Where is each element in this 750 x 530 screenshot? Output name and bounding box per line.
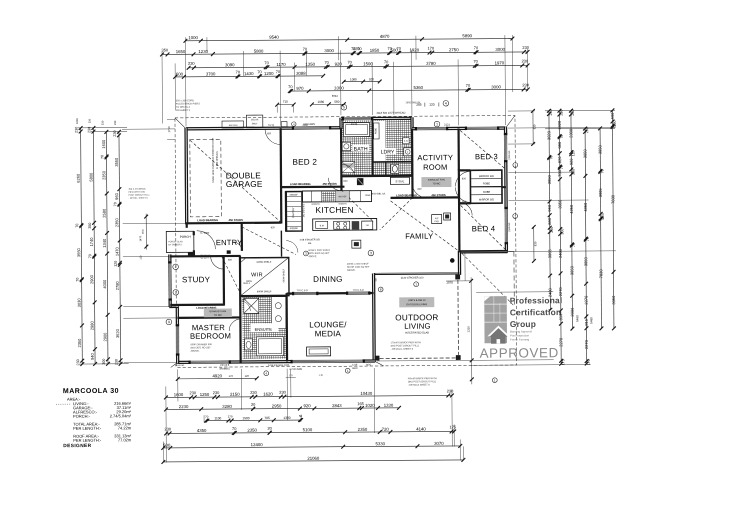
svg-text:ACTIVITY: ACTIVITY <box>417 153 453 162</box>
svg-text:INTEGRATED SLAB: INTEGRATED SLAB <box>405 330 429 334</box>
svg-text:1920: 1920 <box>410 47 420 52</box>
svg-text:500: 500 <box>163 443 171 448</box>
svg-text:2270: 2270 <box>558 337 563 347</box>
svg-text:2980: 2980 <box>89 321 94 331</box>
svg-text:LIVING: LIVING <box>404 322 430 331</box>
svg-text:4870: 4870 <box>380 34 390 39</box>
svg-text:8944: 8944 <box>332 94 338 98</box>
svg-text:1080: 1080 <box>350 77 357 81</box>
svg-text:ABOVE.: ABOVE. <box>191 350 200 353</box>
svg-text:70: 70 <box>549 156 553 160</box>
svg-text:Frame Farming: Frame Farming <box>510 337 530 341</box>
svg-text:2300: 2300 <box>568 128 573 138</box>
svg-text:170: 170 <box>229 374 234 378</box>
svg-text:3050: 3050 <box>583 256 588 266</box>
svg-text:2400: 2400 <box>558 248 563 258</box>
svg-text:(ROBMG): (ROBMG) <box>220 368 230 370</box>
svg-text:350: 350 <box>88 223 92 229</box>
svg-text:B.M: B.M <box>320 225 324 227</box>
svg-text:UNITS & RW 10: UNITS & RW 10 <box>408 299 426 302</box>
svg-text:2350: 2350 <box>77 338 82 348</box>
svg-text:230: 230 <box>213 390 220 395</box>
svg-text:AWN: AWN <box>352 367 358 370</box>
svg-text:1620: 1620 <box>263 392 273 397</box>
svg-text:120: 120 <box>114 261 118 267</box>
svg-text:2130 STACKER 100: 2130 STACKER 100 <box>401 276 424 279</box>
svg-text:4000: 4000 <box>102 279 107 289</box>
svg-text:PER LENGTH:-: PER LENGTH:- <box>73 426 102 431</box>
svg-text:ABOVE.: ABOVE. <box>308 255 317 258</box>
svg-text:230: 230 <box>549 109 553 115</box>
svg-text:600W SHELF: 600W SHELF <box>283 268 285 282</box>
svg-text:230: 230 <box>279 390 286 395</box>
svg-text:- DETAILS, SHEET 6: - DETAILS, SHEET 6 <box>391 348 414 351</box>
svg-text:230: 230 <box>75 127 79 133</box>
svg-text:1218: 1218 <box>352 364 358 366</box>
svg-text:1970: 1970 <box>495 60 505 65</box>
svg-text:820: 820 <box>343 180 348 183</box>
svg-text:BY OWNERS: BY OWNERS <box>168 244 182 246</box>
svg-text:Certification: Certification <box>510 307 562 317</box>
svg-text:230: 230 <box>522 58 529 63</box>
svg-text:3000: 3000 <box>324 48 334 53</box>
svg-text:820: 820 <box>267 132 272 135</box>
svg-text:5800: 5800 <box>254 49 264 54</box>
svg-text:1605: 1605 <box>75 118 79 124</box>
svg-text:3005: 3005 <box>598 188 603 198</box>
svg-text:600 REF: 600 REF <box>339 196 348 198</box>
svg-text:5330: 5330 <box>375 441 385 446</box>
svg-text:1500: 1500 <box>242 416 249 420</box>
svg-text:DINING: DINING <box>313 275 343 284</box>
svg-text:4350: 4350 <box>583 202 588 212</box>
svg-text:3780: 3780 <box>426 61 436 66</box>
svg-text:230: 230 <box>189 390 196 395</box>
svg-text:LOAD BEARING: LOAD BEARING <box>396 193 417 197</box>
svg-text:K / 1260: K / 1260 <box>200 232 210 235</box>
svg-text:5800: 5800 <box>88 172 93 182</box>
svg-text:230: 230 <box>522 82 529 87</box>
svg-text:1600: 1600 <box>174 392 184 397</box>
svg-text:SHELF: SHELF <box>243 283 251 285</box>
svg-text:2900: 2900 <box>89 274 94 284</box>
svg-text:870: 870 <box>141 229 145 234</box>
svg-text:3280: 3280 <box>222 404 232 409</box>
svg-text:6260: 6260 <box>76 173 81 183</box>
svg-text:2150: 2150 <box>230 392 240 397</box>
svg-text:EXHAUST FAN: EXHAUST FAN <box>428 179 445 182</box>
svg-text:MSGD 160W OVERHEAD STEERING DO: MSGD 160W OVERHEAD STEERING DOOR <box>212 137 215 182</box>
svg-text:230: 230 <box>113 120 117 125</box>
svg-text:2/C S/D LIN 3: 2/C S/D LIN 3 <box>303 203 305 217</box>
svg-text:3/18 STACKER S/D: 3/18 STACKER S/D <box>300 238 321 241</box>
svg-text:880: 880 <box>547 217 552 224</box>
svg-text:4: 4 <box>445 101 447 105</box>
svg-text:2118: 2118 <box>302 124 308 127</box>
svg-text:770 C.S.D: 770 C.S.D <box>353 289 364 292</box>
svg-text:70/50: 70/50 <box>365 195 371 197</box>
svg-text:2270: 2270 <box>584 295 589 305</box>
svg-text:600W SHELF: 600W SHELF <box>257 261 272 264</box>
svg-text:1320: 1320 <box>557 120 562 130</box>
svg-text:1170: 1170 <box>276 62 286 67</box>
svg-text:9: 9 <box>168 320 170 324</box>
svg-text:MARCOOLA 30: MARCOOLA 30 <box>63 388 119 395</box>
svg-text:LOAD BEARING: LOAD BEARING <box>290 182 311 186</box>
svg-text:2: 2 <box>175 290 177 294</box>
svg-text:1340: 1340 <box>102 238 107 248</box>
svg-text:3020: 3020 <box>546 130 551 140</box>
svg-text:1470: 1470 <box>114 246 119 256</box>
svg-text:70: 70 <box>100 155 104 159</box>
svg-text:5360: 5360 <box>413 85 423 90</box>
svg-text:1330: 1330 <box>384 403 394 408</box>
svg-text:230: 230 <box>250 390 257 395</box>
svg-text:3700: 3700 <box>206 71 216 76</box>
svg-text:ENTRY: ENTRY <box>216 238 243 247</box>
svg-text:1218 P.B GRS 1906: 1218 P.B GRS 1906 <box>268 364 290 367</box>
svg-text:700: 700 <box>557 169 562 176</box>
svg-text:350: 350 <box>161 47 168 52</box>
svg-text:21060: 21060 <box>307 456 320 461</box>
svg-text:1380: 1380 <box>283 416 290 420</box>
svg-text:170: 170 <box>427 46 434 51</box>
svg-text:1100: 1100 <box>214 416 221 420</box>
svg-text:2350: 2350 <box>358 427 368 432</box>
svg-text:815: 815 <box>584 318 589 325</box>
svg-text:BED 2: BED 2 <box>292 158 317 167</box>
svg-text:2350: 2350 <box>247 428 257 433</box>
svg-text:720: 720 <box>382 427 390 432</box>
svg-text:3050: 3050 <box>597 144 602 154</box>
svg-text:900W x 2400 SHELF: 900W x 2400 SHELF <box>308 250 330 252</box>
svg-text:PAD: PAD <box>435 220 440 223</box>
svg-text:900W x 2400 SHELF: 900W x 2400 SHELF <box>347 264 369 266</box>
svg-text:820: 820 <box>557 156 562 163</box>
svg-text:FAMILY: FAMILY <box>405 232 433 241</box>
svg-text:9540: 9540 <box>269 35 279 40</box>
svg-text:B4 40 S/L: B4 40 S/L <box>175 365 185 367</box>
svg-text:2118 S/D 1/370 W/HEAD: 2118 S/D 1/370 W/HEAD <box>376 111 405 115</box>
svg-text:230: 230 <box>571 109 575 115</box>
svg-text:77.02m: 77.02m <box>118 437 132 442</box>
svg-text:MEDIA: MEDIA <box>315 329 342 338</box>
svg-text:ROBE: ROBE <box>483 191 490 194</box>
svg-text:165: 165 <box>357 401 364 406</box>
svg-text:ROBE: ROBE <box>483 182 490 185</box>
svg-text:Professional: Professional <box>510 295 563 305</box>
svg-text:ENSUITE: ENSUITE <box>255 327 273 332</box>
svg-text:350 X 470 BRICK: 350 X 470 BRICK <box>128 189 146 191</box>
svg-text:MIRROR S/D: MIRROR S/D <box>479 175 494 178</box>
svg-text:4250: 4250 <box>569 204 574 214</box>
svg-text:820: 820 <box>462 200 467 203</box>
svg-text:230: 230 <box>447 388 454 393</box>
svg-text:1710: 1710 <box>167 126 171 133</box>
svg-text:960: 960 <box>547 204 552 211</box>
svg-text:PER LENGTH:-: PER LENGTH:- <box>73 438 102 443</box>
svg-text:APPROVED: APPROVED <box>480 345 559 361</box>
svg-text:10430: 10430 <box>360 391 373 396</box>
svg-text:SLE D/H: SLE D/H <box>229 125 238 127</box>
svg-text:EXHAUST FAN: EXHAUST FAN <box>210 310 227 313</box>
svg-text:70: 70 <box>205 415 209 419</box>
svg-text:70: 70 <box>88 254 92 258</box>
svg-text:600: 600 <box>176 72 184 77</box>
svg-text:70: 70 <box>560 135 564 139</box>
svg-text:980: 980 <box>557 141 562 148</box>
svg-text:4/500W: 4/500W <box>290 195 299 197</box>
svg-text:940: 940 <box>90 352 95 359</box>
svg-text:4/500W: 4/500W <box>290 228 299 230</box>
svg-text:920: 920 <box>369 77 374 81</box>
svg-text:2270: 2270 <box>584 339 589 349</box>
svg-text:3550: 3550 <box>114 157 119 167</box>
svg-text:970: 970 <box>296 86 304 91</box>
svg-text:5: 5 <box>343 105 345 109</box>
svg-text:STOVE: STOVE <box>396 179 405 183</box>
svg-text:GARAGE: GARAGE <box>226 179 263 189</box>
svg-text:1250: 1250 <box>200 392 210 397</box>
svg-text:230: 230 <box>76 359 80 365</box>
svg-text:70: 70 <box>75 224 79 228</box>
svg-text:2121: 2121 <box>444 122 450 126</box>
svg-text:50: 50 <box>299 414 303 418</box>
svg-text:175: 175 <box>561 359 565 365</box>
svg-text:830: 830 <box>533 241 537 246</box>
svg-text:1850: 1850 <box>370 48 380 53</box>
svg-text:3088: 3088 <box>296 71 306 76</box>
svg-text:NICHE 100D SQ SET: NICHE 100D SQ SET <box>347 267 370 269</box>
svg-text:3550: 3550 <box>76 247 81 257</box>
svg-text:705: 705 <box>264 416 270 420</box>
svg-text:TO WC: TO WC <box>432 182 440 185</box>
svg-text:300: 300 <box>560 229 564 235</box>
svg-text:4920: 4920 <box>212 373 222 378</box>
svg-text:1: 1 <box>175 265 177 269</box>
svg-text:LOAD BEARING: LOAD BEARING <box>197 218 218 222</box>
svg-text:Group: Group <box>510 319 536 329</box>
svg-text:SMLY: SMLY <box>252 123 258 125</box>
svg-text:230: 230 <box>114 359 118 365</box>
svg-text:KITCHEN: KITCHEN <box>315 205 353 215</box>
svg-text:2230: 2230 <box>179 404 189 409</box>
svg-text:2350: 2350 <box>114 217 119 227</box>
svg-text:5480: 5480 <box>575 315 579 322</box>
svg-text:74.22m: 74.22m <box>118 425 132 430</box>
svg-text:70: 70 <box>572 243 576 247</box>
svg-text:PORCH-SLAB: PORCH-SLAB <box>168 240 183 243</box>
svg-text:1080: 1080 <box>318 100 325 104</box>
svg-text:820: 820 <box>417 188 422 191</box>
svg-text:IN 8/90 OPENING: IN 8/90 OPENING <box>217 151 219 169</box>
svg-text:LDRY: LDRY <box>381 149 395 155</box>
svg-text:BED 3: BED 3 <box>475 152 498 161</box>
svg-text:830: 830 <box>533 124 537 129</box>
svg-text:240.96 B: 240.96 B <box>220 365 230 367</box>
svg-text:STUDY: STUDY <box>182 275 211 284</box>
svg-text:3050: 3050 <box>557 199 562 209</box>
svg-text:PIER WITH SHS: PIER WITH SHS <box>128 192 145 194</box>
svg-text:ROBE: ROBE <box>375 127 377 134</box>
svg-text:1740: 1740 <box>89 237 94 247</box>
svg-text:ROOM: ROOM <box>423 163 447 172</box>
svg-text:820: 820 <box>228 258 233 261</box>
svg-text:5100: 5100 <box>303 427 313 432</box>
svg-text:1020: 1020 <box>365 403 375 408</box>
svg-text:120: 120 <box>571 150 575 156</box>
svg-text:1/2 Q: 1/2 Q <box>351 122 357 126</box>
svg-text:3050: 3050 <box>547 175 552 185</box>
svg-text:450 STUDS: 450 STUDS <box>431 193 446 197</box>
svg-text:OUTDOOR LIVING: OUTDOOR LIVING <box>406 303 427 306</box>
svg-text:230: 230 <box>188 61 195 66</box>
svg-text:- DETAILS SHEET 6: - DETAILS SHEET 6 <box>408 384 431 387</box>
svg-text:230: 230 <box>560 110 564 116</box>
svg-text:4140: 4140 <box>416 426 426 431</box>
svg-text:3050: 3050 <box>611 295 616 305</box>
svg-text:1: 1 <box>436 122 438 126</box>
svg-text:820: 820 <box>462 177 467 180</box>
svg-text:710: 710 <box>283 100 288 104</box>
svg-text:960: 960 <box>114 192 119 199</box>
svg-text:WIR: WIR <box>251 272 263 278</box>
svg-text:230: 230 <box>585 127 589 133</box>
svg-text:230: 230 <box>87 118 91 123</box>
svg-text:5480: 5480 <box>589 317 593 324</box>
svg-text:70: 70 <box>76 278 80 282</box>
svg-text:120: 120 <box>139 255 142 260</box>
svg-text:3: 3 <box>370 251 372 255</box>
svg-text:3020 DBL S/L: 3020 DBL S/L <box>371 193 386 195</box>
svg-text:ABOVE.: ABOVE. <box>347 269 356 272</box>
svg-text:PORCH:-: PORCH:- <box>73 414 91 419</box>
svg-text:70: 70 <box>600 169 604 173</box>
svg-text:3300: 3300 <box>334 86 344 91</box>
svg-text:SE 3ECT: SE 3ECT <box>200 258 209 260</box>
svg-text:POST (GROUT FILL): POST (GROUT FILL) <box>129 195 150 197</box>
svg-text:3070: 3070 <box>434 441 444 446</box>
svg-text:230: 230 <box>522 45 529 50</box>
svg-text:MIRROR S/D: MIRROR S/D <box>479 198 494 201</box>
svg-text:TO WC: TO WC <box>214 314 222 317</box>
svg-text:3090: 3090 <box>225 62 235 67</box>
svg-text:2580: 2580 <box>102 208 107 218</box>
svg-text:3000: 3000 <box>491 84 501 89</box>
svg-text:2950: 2950 <box>272 403 282 408</box>
svg-text:3065: 3065 <box>547 249 552 259</box>
svg-text:1502 DBS 7H: 1502 DBS 7H <box>406 101 421 104</box>
svg-text:5890: 5890 <box>462 33 472 38</box>
svg-text:2750: 2750 <box>449 47 459 52</box>
svg-text:70: 70 <box>601 217 605 221</box>
svg-text:2780: 2780 <box>115 281 120 291</box>
svg-text:1/2 Q: 1/2 Q <box>268 124 274 127</box>
svg-text:1430: 1430 <box>244 71 254 76</box>
svg-text:70: 70 <box>560 165 564 169</box>
svg-text:175: 175 <box>450 424 457 429</box>
svg-text:2843: 2843 <box>332 403 342 408</box>
svg-text:920: 920 <box>335 62 343 67</box>
svg-text:2000: 2000 <box>570 307 575 317</box>
svg-text:PANTRY: PANTRY <box>291 207 295 218</box>
svg-text:3520: 3520 <box>115 328 120 338</box>
svg-text:3050: 3050 <box>569 265 574 275</box>
svg-text:1470: 1470 <box>138 235 142 241</box>
svg-text:1200: 1200 <box>264 71 274 76</box>
svg-text:1310: 1310 <box>466 326 470 333</box>
svg-text:230: 230 <box>165 426 172 431</box>
svg-text:1600: 1600 <box>101 139 106 149</box>
svg-text:120: 120 <box>429 103 435 107</box>
svg-text:120: 120 <box>245 374 250 378</box>
svg-text:7830: 7830 <box>610 194 615 204</box>
svg-text:580: 580 <box>334 100 339 104</box>
svg-text:PW DM 3D: PW DM 3D <box>200 255 211 257</box>
svg-text:70: 70 <box>586 237 590 241</box>
svg-text:1350: 1350 <box>305 62 315 67</box>
svg-text:BED 4: BED 4 <box>472 224 496 233</box>
svg-text:DESIGNER: DESIGNER <box>63 443 91 449</box>
svg-text:LOUNGE/: LOUNGE/ <box>309 320 347 329</box>
svg-text:A/C: A/C <box>435 217 439 220</box>
svg-text:920: 920 <box>303 403 311 408</box>
svg-text:1016 S/L: 1016 S/L <box>508 150 511 160</box>
svg-text:920: 920 <box>569 158 574 165</box>
svg-text:3000: 3000 <box>495 47 505 52</box>
svg-text:7830: 7830 <box>598 269 603 279</box>
svg-text:70: 70 <box>613 124 617 128</box>
svg-text:- DETAIL, SHEET 6: - DETAIL, SHEET 6 <box>129 197 149 200</box>
svg-text:170: 170 <box>228 414 233 418</box>
svg-text:1650: 1650 <box>176 49 186 54</box>
svg-text:K.W: K.W <box>404 141 408 143</box>
svg-text:WITH 900D SQ SET: WITH 900D SQ SET <box>308 253 330 255</box>
svg-text:770 C.S.D: 770 C.S.D <box>297 289 308 292</box>
svg-text:300: 300 <box>550 227 554 233</box>
svg-text:PORCH: PORCH <box>180 235 191 239</box>
svg-text:450 STUDS: 450 STUDS <box>228 218 243 222</box>
svg-text:4350: 4350 <box>197 428 207 433</box>
svg-text:MSG: MSG <box>366 364 371 366</box>
svg-text:SOLAR: SOLAR <box>251 118 259 121</box>
svg-text:450 STUDS: 450 STUDS <box>322 182 337 186</box>
svg-text:3050: 3050 <box>582 149 587 159</box>
svg-text:600W SHELF: 600W SHELF <box>257 290 272 293</box>
svg-text:1500: 1500 <box>363 61 373 66</box>
svg-text:2900: 2900 <box>102 332 107 342</box>
svg-text:70: 70 <box>113 202 117 206</box>
svg-text:600: 600 <box>610 112 615 119</box>
svg-text:12400: 12400 <box>251 442 264 447</box>
svg-text:230: 230 <box>100 120 104 125</box>
svg-text:+ 2120 AWN: + 2120 AWN <box>289 368 302 371</box>
svg-text:1518 S/L: 1518 S/L <box>508 222 511 232</box>
svg-text:2350: 2350 <box>101 170 106 180</box>
svg-text:2.74/5.04m²: 2.74/5.04m² <box>110 413 132 418</box>
svg-text:3030: 3030 <box>77 298 82 308</box>
svg-text:820: 820 <box>271 226 276 229</box>
svg-text:820: 820 <box>242 298 247 301</box>
svg-text:BATH: BATH <box>354 147 368 153</box>
svg-text:1000: 1000 <box>188 35 198 40</box>
svg-text:ON SHEET 5: ON SHEET 5 <box>176 109 191 112</box>
svg-text:BEDROOM: BEDROOM <box>190 332 231 341</box>
